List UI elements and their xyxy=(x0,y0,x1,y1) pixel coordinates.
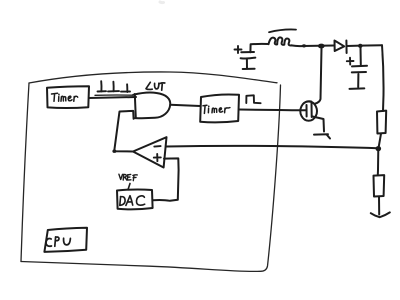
AND gate (LUT output gate) xyxy=(135,94,136,118)
output capacitor C2 ground xyxy=(350,74,365,89)
wire node FB down to R2 xyxy=(377,149,380,175)
CPU box xyxy=(44,228,87,252)
wire R1 to node FB xyxy=(379,134,381,148)
wire comparator output to AND gate lower input xyxy=(114,111,133,152)
diode D1 xyxy=(335,41,345,52)
feedback wire to comparator minus input xyxy=(166,146,378,148)
VREF pointer tick xyxy=(128,184,130,190)
output capacitor C2 plates xyxy=(352,65,367,68)
MOSFET ground xyxy=(314,134,330,138)
wire C1 to inductor xyxy=(250,44,268,52)
input capacitor C1 plates xyxy=(241,51,254,53)
bend blob xyxy=(112,150,116,153)
chip boundary box xyxy=(21,72,281,271)
MOSFET source wire xyxy=(313,117,325,132)
node A junction dot xyxy=(318,44,325,49)
diode D1 cathode bar xyxy=(345,41,347,54)
MOSFET gate bar xyxy=(306,105,308,117)
timer T2 box xyxy=(200,94,239,122)
inductor L1 top bar xyxy=(269,29,296,32)
wire R2 to ground xyxy=(378,197,380,215)
timer T1 box xyxy=(47,86,89,108)
DAC box xyxy=(117,189,153,209)
MOSFET channel bar xyxy=(311,103,313,118)
resistor R1 xyxy=(377,111,386,134)
wire timer2 to MOSFET gate xyxy=(239,109,306,112)
wire diode to output node xyxy=(347,44,382,47)
CPU label xyxy=(46,237,70,246)
doubled wire stroke xyxy=(95,94,133,96)
comparator plus sign xyxy=(154,154,161,161)
timer T2 label xyxy=(203,105,230,113)
inductor L1 coil xyxy=(269,37,292,45)
ground arrow below R2 xyxy=(371,212,390,217)
input capacitor C1 plus sign xyxy=(235,46,242,53)
label VREF xyxy=(119,174,137,181)
output capacitor C2 lead xyxy=(360,47,362,65)
comparator U3 xyxy=(133,137,167,167)
label LUT xyxy=(146,82,165,90)
node dot small xyxy=(302,44,306,47)
faint smudge top xyxy=(160,1,164,5)
input capacitor C1 ground xyxy=(243,60,255,70)
wire AND gate to timer2 xyxy=(170,105,200,106)
wire output node down right edge xyxy=(382,45,384,111)
MOSFET Q1 body xyxy=(300,102,317,121)
node B junction dot xyxy=(358,44,363,48)
MOSFET drain wire xyxy=(315,48,322,104)
DAC label xyxy=(120,196,145,206)
timer T1 label xyxy=(52,93,78,101)
pulse train symbol xyxy=(98,81,131,92)
output capacitor C2 plus sign xyxy=(347,58,354,65)
wire comparator plus input to DAC xyxy=(153,158,179,200)
node FB junction dot xyxy=(376,146,382,151)
comparator minus sign xyxy=(154,145,160,148)
wire timer1 to AND gate xyxy=(89,97,136,98)
square pulse symbol xyxy=(246,95,260,103)
resistor R2 xyxy=(374,175,385,196)
wire L1 to node A xyxy=(292,44,335,47)
